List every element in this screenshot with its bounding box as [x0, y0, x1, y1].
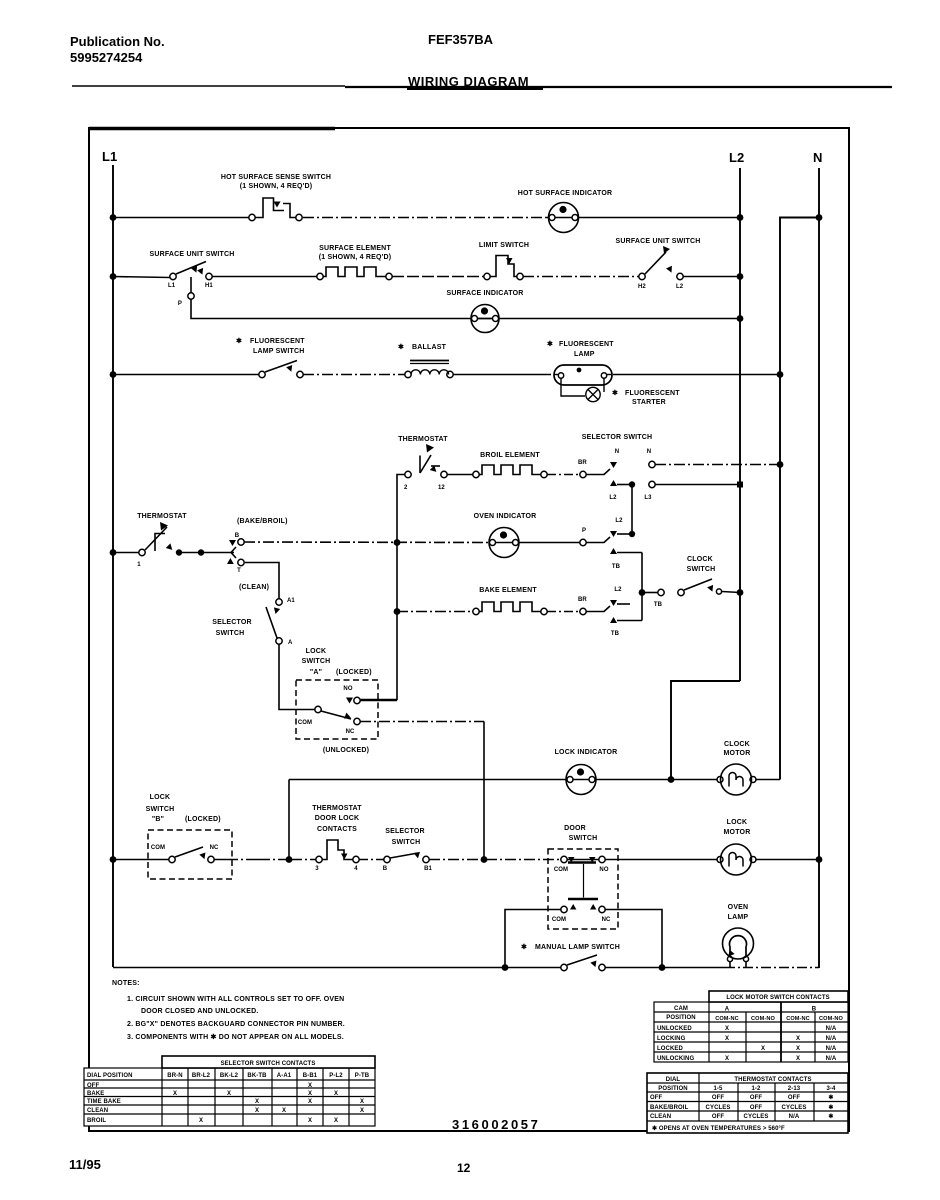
svg-text:B: B [812, 1007, 817, 1013]
svg-text:FEF357BA: FEF357BA [428, 32, 494, 47]
svg-text:LOCKING: LOCKING [657, 1036, 686, 1042]
svg-text:TIME BAKE: TIME BAKE [87, 1099, 121, 1105]
svg-text:TB: TB [611, 631, 620, 637]
svg-text:FLUORESCENT: FLUORESCENT [250, 338, 305, 345]
svg-text:X: X [255, 1099, 259, 1105]
svg-text:OFF: OFF [712, 1114, 725, 1120]
svg-text:LOCK MOTOR SWITCH CONTACTS: LOCK MOTOR SWITCH CONTACTS [726, 995, 829, 1001]
svg-text:Publication No.: Publication No. [70, 34, 165, 49]
svg-text:FLUORESCENT: FLUORESCENT [625, 390, 680, 397]
svg-text:"B": "B" [152, 816, 164, 823]
svg-text:NO: NO [343, 686, 352, 692]
svg-text:✱: ✱ [398, 343, 404, 351]
svg-text:OFF: OFF [788, 1095, 801, 1101]
svg-text:✱: ✱ [828, 1113, 833, 1120]
svg-text:X: X [796, 1056, 800, 1062]
svg-text:FLUORESCENT: FLUORESCENT [559, 341, 614, 348]
svg-text:L2: L2 [676, 284, 684, 290]
svg-text:4: 4 [354, 866, 358, 872]
svg-text:N/A: N/A [789, 1114, 800, 1120]
svg-text:BR-L2: BR-L2 [192, 1073, 211, 1079]
svg-text:X: X [796, 1036, 800, 1042]
svg-text:BK-TB: BK-TB [247, 1073, 267, 1079]
svg-text:X: X [255, 1108, 259, 1114]
svg-text:3. COMPONENTS WITH ✱ DO NOT AP: 3. COMPONENTS WITH ✱ DO NOT APPEAR ON AL… [127, 1033, 344, 1041]
svg-text:THERMOSTAT CONTACTS: THERMOSTAT CONTACTS [734, 1077, 811, 1083]
svg-text:(LOCKED): (LOCKED) [336, 669, 372, 676]
svg-text:CLEAN: CLEAN [87, 1108, 108, 1114]
svg-text:OVEN: OVEN [728, 904, 749, 911]
svg-text:BAKE ELEMENT: BAKE ELEMENT [479, 587, 537, 594]
svg-text:LOCK: LOCK [150, 794, 171, 801]
svg-text:SURFACE UNIT SWITCH: SURFACE UNIT SWITCH [149, 251, 234, 258]
svg-text:(UNLOCKED): (UNLOCKED) [323, 747, 369, 754]
svg-text:SWITCH: SWITCH [687, 566, 716, 573]
svg-text:(CLEAN): (CLEAN) [239, 584, 269, 591]
svg-text:2-13: 2-13 [788, 1086, 801, 1092]
svg-text:✱ OPENS AT OVEN TEMPERATURES: ✱ OPENS AT OVEN TEMPERATURES > 560°F [652, 1125, 785, 1132]
svg-text:POSITION: POSITION [666, 1015, 695, 1021]
svg-text:NC: NC [346, 729, 355, 735]
svg-text:✱: ✱ [236, 337, 242, 345]
svg-text:COM-NO: COM-NO [819, 1016, 843, 1022]
svg-text:CYCLES: CYCLES [706, 1105, 731, 1111]
svg-text:N: N [647, 449, 651, 455]
svg-text:✱: ✱ [521, 943, 527, 951]
svg-text:316002057: 316002057 [452, 1117, 540, 1132]
svg-text:2. BG"X" DENOTES BACKGUARD CON: 2. BG"X" DENOTES BACKGUARD CONNECTOR PIN… [127, 1021, 345, 1028]
svg-text:P-L2: P-L2 [329, 1073, 343, 1079]
svg-text:BROIL: BROIL [87, 1118, 106, 1124]
svg-text:NC: NC [210, 845, 219, 851]
svg-text:B: B [235, 533, 240, 539]
svg-text:MANUAL LAMP SWITCH: MANUAL LAMP SWITCH [535, 944, 620, 951]
svg-text:P: P [582, 528, 586, 534]
svg-text:X: X [360, 1108, 364, 1114]
svg-text:1. CIRCUIT SHOWN WITH ALL CONT: 1. CIRCUIT SHOWN WITH ALL CONTROLS SET T… [127, 996, 344, 1003]
svg-text:(LOCKED): (LOCKED) [185, 816, 221, 823]
svg-text:CONTACTS: CONTACTS [317, 826, 357, 833]
svg-text:NO: NO [599, 867, 608, 873]
svg-text:DOOR CLOSED AND UNLOCKED.: DOOR CLOSED AND UNLOCKED. [141, 1008, 259, 1015]
svg-text:NC: NC [602, 917, 611, 923]
svg-text:N/A: N/A [826, 1036, 837, 1042]
svg-text:X: X [360, 1099, 364, 1105]
svg-text:12: 12 [438, 485, 445, 491]
svg-text:"A": "A" [310, 669, 322, 676]
svg-text:SWITCH: SWITCH [146, 806, 175, 813]
svg-text:SURFACE INDICATOR: SURFACE INDICATOR [446, 290, 523, 297]
svg-text:OFF: OFF [87, 1083, 100, 1089]
svg-text:BR-N: BR-N [167, 1073, 182, 1079]
svg-text:B1: B1 [424, 866, 432, 872]
svg-text:DOOR LOCK: DOOR LOCK [315, 815, 360, 822]
svg-text:OFF: OFF [712, 1095, 725, 1101]
svg-text:A: A [288, 640, 293, 646]
svg-text:5995274254: 5995274254 [70, 50, 143, 65]
svg-text:LAMP: LAMP [728, 914, 749, 921]
svg-text:COM: COM [298, 720, 312, 726]
svg-text:3: 3 [315, 866, 319, 872]
svg-text:N/A: N/A [826, 1056, 837, 1062]
svg-text:H2: H2 [638, 284, 646, 290]
svg-text:BALLAST: BALLAST [412, 344, 447, 351]
svg-text:X: X [334, 1118, 338, 1124]
svg-text:X: X [173, 1091, 177, 1097]
svg-text:X: X [334, 1091, 338, 1097]
svg-text:SELECTOR SWITCH CONTACTS: SELECTOR SWITCH CONTACTS [221, 1061, 316, 1067]
svg-text:BAKE/BROIL: BAKE/BROIL [650, 1105, 689, 1111]
svg-text:(1 SHOWN, 4 REQ'D): (1 SHOWN, 4 REQ'D) [319, 254, 392, 261]
svg-text:COM: COM [554, 867, 568, 873]
svg-text:L3: L3 [644, 495, 652, 501]
svg-text:UNLOCKED: UNLOCKED [657, 1026, 692, 1032]
svg-text:(BAKE/BROIL): (BAKE/BROIL) [237, 518, 288, 525]
svg-text:DOOR: DOOR [564, 825, 586, 832]
svg-text:X: X [796, 1046, 800, 1052]
svg-text:B: B [383, 866, 388, 872]
svg-text:✱: ✱ [612, 389, 618, 397]
svg-text:BAKE: BAKE [87, 1091, 104, 1097]
svg-text:A-A1: A-A1 [277, 1073, 292, 1079]
svg-text:MOTOR: MOTOR [724, 750, 751, 757]
svg-text:L2: L2 [615, 518, 623, 524]
svg-text:1-2: 1-2 [752, 1086, 762, 1092]
svg-text:P-TB: P-TB [355, 1073, 370, 1079]
svg-text:1: 1 [137, 562, 141, 568]
svg-text:SURFACE ELEMENT: SURFACE ELEMENT [319, 245, 391, 252]
svg-text:SELECTOR: SELECTOR [385, 828, 425, 835]
svg-text:X: X [199, 1118, 203, 1124]
svg-text:T: T [237, 568, 241, 574]
svg-text:OVEN INDICATOR: OVEN INDICATOR [474, 513, 537, 520]
svg-text:CAM: CAM [674, 1006, 688, 1012]
svg-text:L2: L2 [609, 495, 617, 501]
svg-text:HOT SURFACE INDICATOR: HOT SURFACE INDICATOR [518, 190, 613, 197]
svg-text:SWITCH: SWITCH [392, 839, 421, 846]
svg-text:X: X [308, 1118, 312, 1124]
svg-text:LOCK: LOCK [727, 819, 748, 826]
svg-text:CLOCK: CLOCK [724, 741, 750, 748]
svg-text:STARTER: STARTER [632, 399, 666, 406]
svg-text:✱: ✱ [547, 340, 553, 348]
svg-text:✱: ✱ [828, 1104, 833, 1111]
svg-text:BROIL ELEMENT: BROIL ELEMENT [480, 452, 540, 459]
svg-text:A1: A1 [287, 598, 295, 604]
svg-text:CLEAN: CLEAN [650, 1114, 671, 1120]
svg-text:LOCKED: LOCKED [657, 1046, 683, 1052]
svg-text:LAMP: LAMP [574, 351, 595, 358]
svg-text:OFF: OFF [650, 1095, 663, 1101]
svg-text:DIAL: DIAL [666, 1077, 681, 1083]
svg-text:X: X [227, 1091, 231, 1097]
svg-text:X: X [308, 1083, 312, 1089]
svg-text:X: X [725, 1036, 729, 1042]
svg-text:MOTOR: MOTOR [724, 829, 751, 836]
svg-text:THERMOSTAT: THERMOSTAT [398, 436, 448, 443]
svg-text:HOT SURFACE SENSE SWITCH: HOT SURFACE SENSE SWITCH [221, 174, 331, 181]
svg-text:OFF: OFF [750, 1095, 763, 1101]
svg-text:X: X [725, 1056, 729, 1062]
svg-text:2: 2 [404, 485, 408, 491]
svg-text:SWITCH: SWITCH [569, 835, 598, 842]
svg-text:LAMP SWITCH: LAMP SWITCH [253, 348, 304, 355]
svg-text:SELECTOR: SELECTOR [212, 619, 252, 626]
svg-text:X: X [761, 1046, 765, 1052]
svg-text:SWITCH: SWITCH [216, 630, 245, 637]
svg-text:CYCLES: CYCLES [782, 1105, 807, 1111]
svg-text:N/A: N/A [826, 1046, 837, 1052]
svg-text:TB: TB [654, 602, 663, 608]
svg-text:X: X [308, 1091, 312, 1097]
svg-text:BK-L2: BK-L2 [220, 1073, 239, 1079]
svg-text:COM-NO: COM-NO [751, 1016, 775, 1022]
svg-text:COM: COM [151, 845, 165, 851]
svg-text:X: X [308, 1099, 312, 1105]
svg-text:CYCLES: CYCLES [744, 1114, 769, 1120]
svg-text:12: 12 [457, 1161, 471, 1175]
svg-text:N/A: N/A [826, 1026, 837, 1032]
svg-text:POSITION: POSITION [658, 1086, 687, 1092]
svg-text:LIMIT SWITCH: LIMIT SWITCH [479, 242, 529, 249]
svg-text:COM-NC: COM-NC [715, 1016, 739, 1022]
svg-text:BR: BR [578, 597, 587, 603]
svg-text:N: N [813, 150, 822, 165]
svg-text:NOTES:: NOTES: [112, 980, 140, 987]
svg-text:TB: TB [612, 564, 621, 570]
svg-text:THERMOSTAT: THERMOSTAT [137, 513, 187, 520]
svg-text:N: N [615, 449, 619, 455]
svg-text:1-5: 1-5 [714, 1086, 724, 1092]
svg-text:L2: L2 [614, 587, 622, 593]
svg-text:L1: L1 [102, 149, 117, 164]
svg-text:UNLOCKING: UNLOCKING [657, 1056, 694, 1062]
svg-text:11/95: 11/95 [69, 1157, 101, 1172]
svg-text:3-4: 3-4 [827, 1086, 837, 1092]
svg-text:B-B1: B-B1 [303, 1073, 318, 1079]
svg-text:OFF: OFF [750, 1105, 763, 1111]
svg-text:L1: L1 [168, 283, 176, 289]
svg-text:SURFACE UNIT SWITCH: SURFACE UNIT SWITCH [615, 238, 700, 245]
svg-text:X: X [725, 1026, 729, 1032]
svg-text:LOCK: LOCK [306, 648, 327, 655]
svg-text:(1 SHOWN, 4 REQ'D): (1 SHOWN, 4 REQ'D) [240, 183, 313, 190]
svg-text:CLOCK: CLOCK [687, 556, 713, 563]
svg-text:P: P [178, 301, 182, 307]
svg-text:COM-NC: COM-NC [786, 1016, 810, 1022]
svg-text:COM: COM [552, 917, 566, 923]
svg-text:X: X [282, 1108, 286, 1114]
svg-text:DIAL POSITION: DIAL POSITION [87, 1073, 133, 1079]
svg-text:SELECTOR SWITCH: SELECTOR SWITCH [582, 434, 653, 441]
svg-text:A: A [725, 1007, 730, 1013]
svg-text:BR: BR [578, 460, 587, 466]
svg-text:SWITCH: SWITCH [302, 658, 331, 665]
svg-text:LOCK INDICATOR: LOCK INDICATOR [555, 749, 618, 756]
svg-text:✱: ✱ [828, 1094, 833, 1101]
svg-text:H1: H1 [205, 283, 213, 289]
svg-text:THERMOSTAT: THERMOSTAT [312, 805, 362, 812]
svg-text:L2: L2 [729, 150, 744, 165]
